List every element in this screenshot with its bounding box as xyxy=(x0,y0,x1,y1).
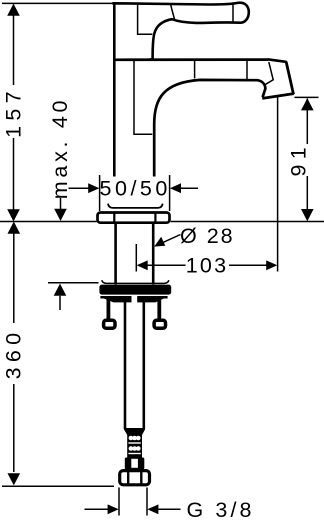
dimension 103 line xyxy=(147,264,267,266)
body top surface line xyxy=(113,58,269,61)
dimension 50/50 ext line left xyxy=(99,175,101,211)
spout tip right edge xyxy=(286,62,293,95)
hex nut facet line left xyxy=(127,470,129,486)
tube joint line xyxy=(124,428,145,430)
supply tube left edge xyxy=(124,296,127,429)
svg-text:max. 40: max. 40 xyxy=(48,97,72,199)
dimension 360 bottom arrow xyxy=(8,473,21,485)
deck extension line xyxy=(0,221,324,223)
dimension 91 line xyxy=(306,99,308,210)
fastening washer band xyxy=(99,285,171,295)
svg-text:Ø 28: Ø 28 xyxy=(180,224,235,248)
base plate inner line left xyxy=(113,213,115,223)
hex nut facet line right xyxy=(140,470,142,486)
dimension G3/8 ext line right xyxy=(146,488,148,516)
dimension G3/8 left arrow xyxy=(108,504,119,514)
spout joint line near tip xyxy=(246,61,248,80)
dimension 50/50 left stub xyxy=(69,187,89,189)
svg-text:157: 157 xyxy=(1,86,25,138)
dimension 50/50 right arrow xyxy=(170,183,181,193)
label diameter 28 leader xyxy=(157,235,181,246)
shank right edge xyxy=(152,224,155,285)
dimension 103 left arrow xyxy=(137,260,148,270)
dimension 50/50 ext line right xyxy=(169,175,171,211)
hanger bolt rod right xyxy=(157,296,161,320)
deck bottom line xyxy=(48,282,99,284)
flex hose corrugation xyxy=(127,433,142,459)
lever neck foot blob xyxy=(146,58,158,61)
dimension 157 bottom arrow xyxy=(7,209,20,221)
bolt nut left xyxy=(104,320,115,328)
connection hex nut xyxy=(120,471,150,485)
dimension max.40 lower tail xyxy=(59,296,61,310)
lever handle outline xyxy=(113,3,249,59)
dimension 50/50 left arrow xyxy=(88,183,99,193)
dimension max.40 down arrow xyxy=(54,209,67,221)
escutcheon base plate xyxy=(98,213,170,223)
spout tip top edge xyxy=(268,59,287,62)
extension line top (handle top level) xyxy=(2,2,114,4)
lever inner detail line vertical xyxy=(138,4,153,34)
lever blade detail diagonal xyxy=(171,4,175,19)
svg-text:91: 91 xyxy=(286,142,310,177)
dimension 103 ext line (axis) xyxy=(135,244,137,272)
shank left edge xyxy=(114,224,117,285)
flex hose collar xyxy=(125,458,145,470)
spout joint line near body xyxy=(194,61,196,79)
bolt nut right xyxy=(154,320,165,328)
dimension 103 right arrow xyxy=(266,260,277,270)
dimension 91 ext line top xyxy=(295,96,319,98)
svg-text:103: 103 xyxy=(186,253,228,277)
fastening nut strip right xyxy=(137,296,167,302)
label diameter 28 arrowhead xyxy=(154,237,165,247)
body column left edge xyxy=(113,59,116,177)
spout tip inner detail xyxy=(264,62,273,85)
dimension 360 top arrow xyxy=(8,222,21,234)
lever end-cap detail line xyxy=(232,3,234,22)
dimension max.40 line xyxy=(60,198,62,209)
base skirt dish xyxy=(108,204,163,208)
dimension G3/8 right stub xyxy=(158,508,180,510)
flex hose taper xyxy=(124,430,145,436)
svg-text:G 3/8: G 3/8 xyxy=(187,498,255,522)
dimension G3/8 ext line left xyxy=(118,488,120,516)
extension line bottom (hose nut) xyxy=(2,485,114,487)
spout outlet face xyxy=(262,94,294,99)
dimension 157 top arrow xyxy=(7,4,20,16)
dimension max.40 up arrow xyxy=(54,284,67,296)
dimension 91 top arrow xyxy=(301,98,314,110)
svg-text:50/50: 50/50 xyxy=(100,176,171,200)
fastening dish line xyxy=(102,280,169,283)
dimension 157 line xyxy=(13,5,15,210)
dimension 50/50 right stub xyxy=(181,187,198,189)
hanger bolt rod left xyxy=(107,296,111,320)
fastening nut strip left xyxy=(100,296,131,302)
dimension 91 bottom arrow xyxy=(301,209,314,221)
dimension 360 line xyxy=(13,233,15,472)
dimension G3/8 left stub xyxy=(85,508,108,510)
body inner detail L xyxy=(134,61,152,134)
dimension G3/8 right arrow xyxy=(147,504,158,514)
spout underside arc merging into column right edge xyxy=(154,80,265,177)
supply tube right edge xyxy=(143,296,146,429)
dimension 103 ext line (aerator) xyxy=(277,97,279,271)
base plate inner line right xyxy=(154,213,156,223)
dimension 50/50 text backing xyxy=(101,177,167,203)
svg-text:360: 360 xyxy=(2,328,26,380)
